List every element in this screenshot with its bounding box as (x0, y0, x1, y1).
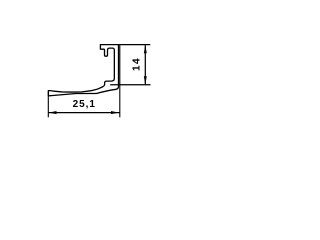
arrow right (25,1) (111, 111, 119, 114)
profile outline (48, 45, 118, 96)
extension line left (25,1 dim) (47, 91, 49, 118)
dimension line 25,1 (48, 112, 119, 114)
arrow down (14) (144, 76, 147, 84)
extension line right (25,1 dim) (119, 45, 121, 117)
dimension line 14 (144, 45, 146, 84)
extension line bottom (14 dim) (110, 84, 150, 86)
arrow left (25,1) (49, 111, 57, 114)
svg-text:25,1: 25,1 (73, 99, 96, 110)
extension line top (14 dim) (119, 44, 151, 46)
arrow up (14) (144, 45, 147, 53)
svg-text:14: 14 (132, 57, 143, 71)
